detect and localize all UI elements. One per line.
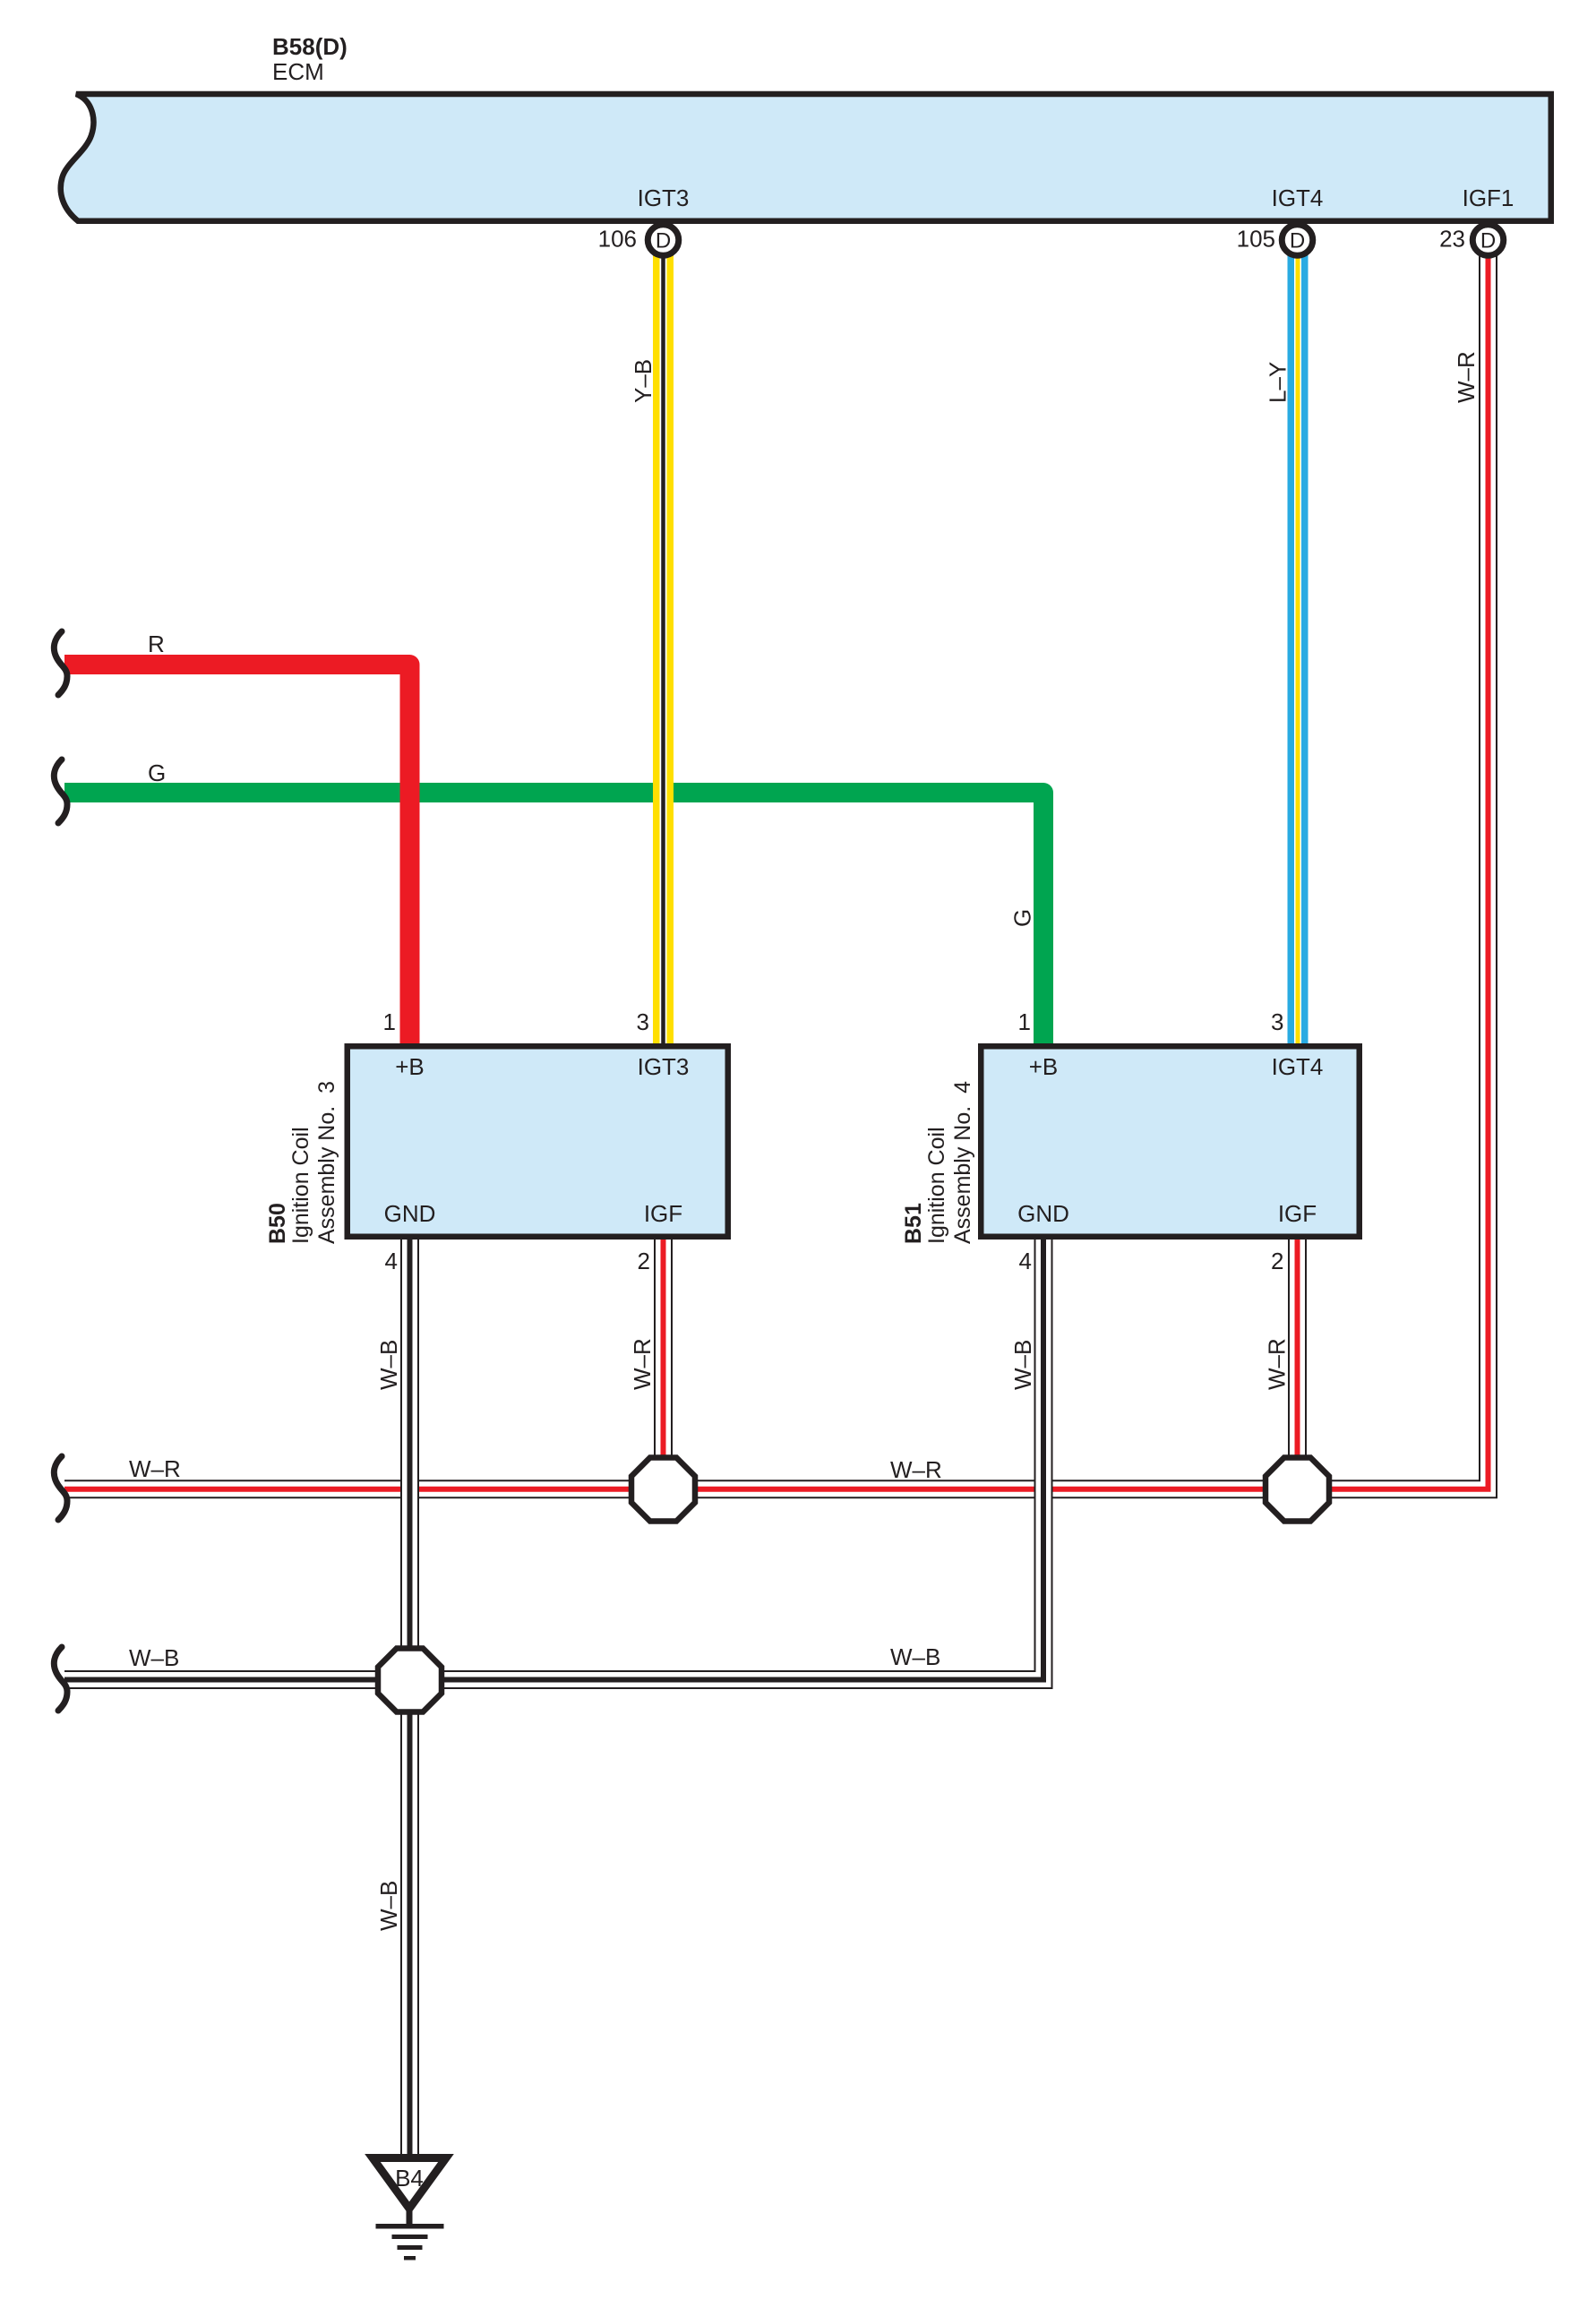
svg-text:G: G [1009,909,1036,927]
svg-text:1: 1 [383,1008,396,1035]
svg-text:W–B: W–B [890,1643,940,1670]
wire R (red, from break to B50 +B) [64,665,410,1044]
break symbol (wire W-R) [54,1456,67,1520]
wire Y-B (IGT3 to coil B50 pin 3) [653,242,674,1044]
wire W-B (B50 GND down to ground B4) [400,1240,419,2157]
junction J3 (W-B / B50 GND octagon) [378,1649,442,1712]
svg-text:Ignition Coil: Ignition Coil [924,1127,949,1244]
ECM pin 23 circle D [1472,225,1504,256]
svg-text:+B: +B [1029,1053,1059,1080]
svg-text:4: 4 [385,1248,398,1274]
svg-text:W–B: W–B [1009,1340,1036,1390]
svg-text:W–B: W–B [375,1881,402,1931]
svg-text:R: R [148,631,165,657]
svg-text:+B: +B [395,1053,425,1080]
svg-text:W–R: W–R [129,1455,181,1482]
svg-text:3: 3 [1271,1008,1283,1035]
svg-text:Y–B: Y–B [630,359,656,403]
svg-text:D: D [656,229,671,253]
svg-text:W–R: W–R [629,1338,656,1390]
svg-text:W–R: W–R [1453,351,1480,403]
ECM pin 105 circle D [1282,225,1313,256]
wire W-R (IGF1 down and across to left break) [64,240,1489,1489]
svg-text:3: 3 [637,1008,649,1035]
svg-text:ECM: ECM [272,58,324,85]
svg-text:IGF: IGF [1278,1200,1317,1227]
coil box B50 (Ignition Coil Assembly No. 3) [348,1046,728,1237]
break symbol (wire R) [54,631,67,695]
coil box B51 (Ignition Coil Assembly No. 4) [981,1046,1360,1237]
svg-text:W–R: W–R [890,1456,942,1483]
svg-text:4: 4 [1019,1248,1032,1274]
svg-text:IGT3: IGT3 [638,1053,690,1080]
svg-text:1: 1 [1018,1008,1031,1035]
break symbol (wire G) [54,759,67,823]
svg-text:G: G [148,759,166,786]
svg-text:106: 106 [598,226,637,253]
svg-text:IGF1: IGF1 [1463,184,1514,211]
junction J1 (W-R / B50 IGF octagon) [631,1458,695,1522]
svg-text:D: D [1290,229,1305,253]
svg-text:B58(D): B58(D) [272,33,348,60]
svg-text:L–Y: L–Y [1265,362,1291,403]
ECM connector box B58(D) [61,94,1551,221]
svg-text:IGT4: IGT4 [1272,184,1324,211]
svg-text:IGT4: IGT4 [1272,1053,1324,1080]
svg-text:2: 2 [638,1248,650,1274]
svg-text:IGT3: IGT3 [638,184,690,211]
svg-text:B50: B50 [265,1203,290,1244]
ground symbol B4 [373,2158,446,2260]
svg-text:GND: GND [384,1200,436,1227]
svg-text:IGF: IGF [644,1200,682,1227]
svg-text:B51: B51 [901,1203,926,1244]
svg-text:Assembly No. 3: Assembly No. 3 [314,1081,339,1244]
wire W-R stub (B50 IGF to junction) [654,1240,673,1489]
svg-text:B4: B4 [395,2165,424,2192]
svg-text:Ignition Coil: Ignition Coil [288,1127,313,1244]
wire G (green, from break to B51 +B) [64,793,1043,1044]
svg-text:2: 2 [1271,1248,1283,1274]
svg-text:105: 105 [1237,226,1275,253]
svg-text:W–R: W–R [1264,1338,1291,1390]
svg-text:W–B: W–B [129,1644,179,1671]
ECM pin 106 circle D [648,225,679,256]
wire W-B (B51 GND down and across to left break) [64,1240,1043,1680]
svg-text:D: D [1480,229,1496,253]
svg-text:23: 23 [1439,226,1465,253]
svg-text:GND: GND [1017,1200,1069,1227]
junction J2 (W-R / B51 IGF octagon) [1266,1458,1329,1522]
wire W-R stub (B51 IGF to junction) [1288,1240,1307,1489]
break symbol (wire W-B) [54,1647,67,1711]
wire L-Y (IGT4 to coil B51 pin 3) [1288,242,1309,1044]
svg-text:W–B: W–B [375,1340,402,1390]
svg-text:Assembly No. 4: Assembly No. 4 [950,1081,975,1244]
